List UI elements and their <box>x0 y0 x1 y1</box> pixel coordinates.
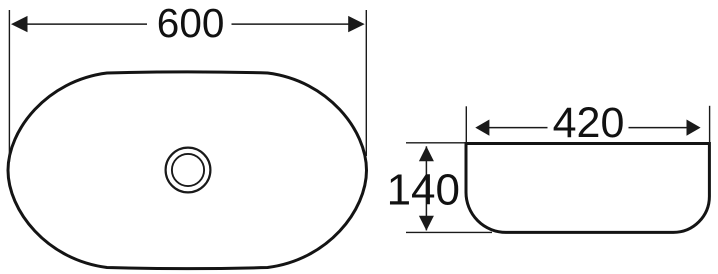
svg-text:140: 140 <box>387 166 460 215</box>
arrowhead left of 420 <box>475 120 489 136</box>
extension line right of 420 dimension <box>709 106 711 144</box>
extension line left of 420 dimension <box>465 106 467 143</box>
extension line left of 600 dimension <box>8 10 10 162</box>
extension line top of 140 dimension <box>406 142 466 144</box>
dimension line 600 left segment <box>26 23 147 25</box>
extension line right of 600 dimension <box>365 10 367 156</box>
basin top view outline <box>8 72 367 269</box>
arrowhead left of 600 <box>11 16 28 32</box>
arrowhead right of 420 <box>687 120 701 136</box>
extension line bottom of 140 dimension <box>406 231 492 233</box>
svg-text:420: 420 <box>553 99 625 147</box>
basin side view outline <box>466 144 709 233</box>
dimension line 140 vertical <box>425 146 427 230</box>
arrowhead right of 600 <box>348 16 365 32</box>
arrowhead top of 140 <box>419 146 434 161</box>
svg-text:600: 600 <box>157 0 225 46</box>
drain inner circle <box>172 154 204 186</box>
dimension line 420 right segment <box>629 127 688 129</box>
dimension line 420 left segment <box>489 127 548 129</box>
arrowhead bottom of 140 <box>419 216 434 231</box>
dimension line 600 right segment <box>232 23 351 25</box>
drain outer circle <box>166 148 211 193</box>
